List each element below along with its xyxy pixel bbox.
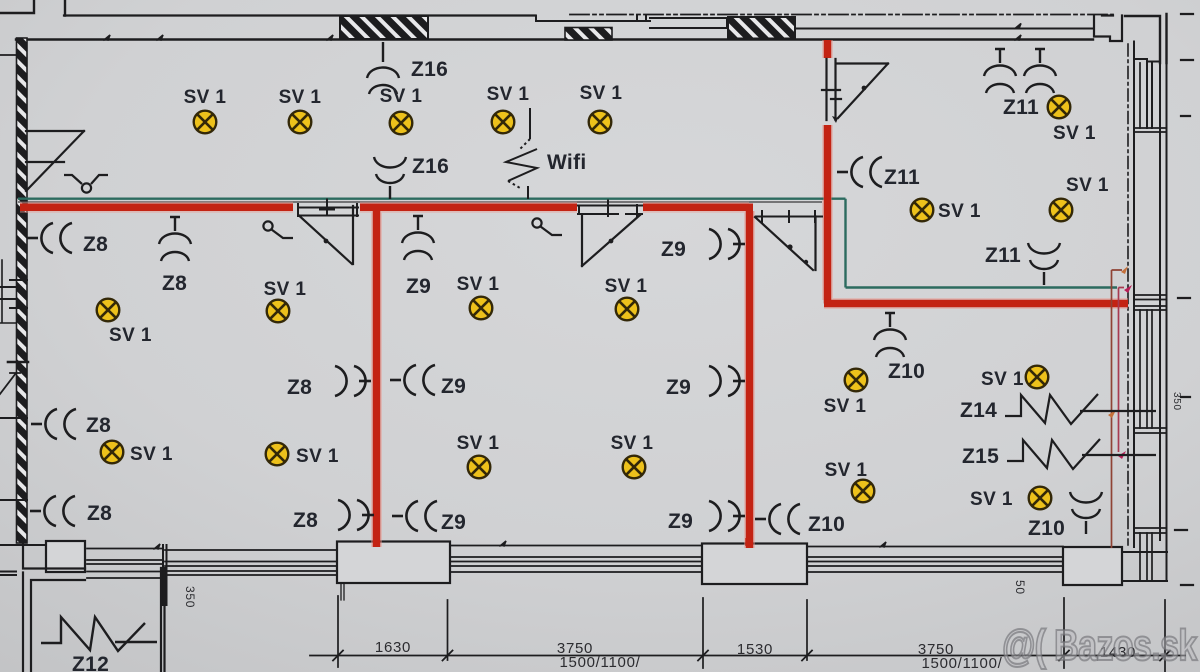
radiator Z15 xyxy=(1007,439,1100,469)
lamp SV1 room3a xyxy=(845,369,868,392)
dimension line xyxy=(310,655,1185,657)
lamp SV1 room3b xyxy=(1026,366,1049,389)
antenna Z11 a xyxy=(984,49,1016,93)
lamp SV1 c1 xyxy=(194,111,217,134)
svg-text:SV 1: SV 1 xyxy=(487,84,530,105)
svg-text:50: 50 xyxy=(1013,580,1027,595)
red stub pier3 xyxy=(745,538,753,546)
svg-text:SV 1: SV 1 xyxy=(380,86,423,107)
wall top upper line xyxy=(64,14,535,16)
svg-text:Z14: Z14 xyxy=(960,399,997,422)
antenna Z11 lower xyxy=(1028,243,1060,285)
svg-text:Z9: Z9 xyxy=(441,375,466,398)
door 4 top-left xyxy=(26,131,84,191)
door 2 lintel xyxy=(578,201,642,217)
lamp SV1 r4c xyxy=(1050,199,1073,222)
door 1 leaf xyxy=(299,206,353,264)
svg-text:Z9: Z9 xyxy=(668,510,693,533)
lamp SV1 room1d xyxy=(266,443,289,466)
tick mark xyxy=(1015,24,1021,41)
dimension slash ticks xyxy=(333,651,1170,661)
svg-text:SV 1: SV 1 xyxy=(264,279,307,300)
lamp SV1 r4a xyxy=(1048,96,1071,119)
antenna Z10 room4 xyxy=(874,313,906,357)
arrow brown z14 xyxy=(1108,410,1116,418)
switch S2 room1 xyxy=(263,221,293,238)
lamp SV1 room2c xyxy=(468,456,491,479)
door 2 leaf xyxy=(582,215,640,266)
svg-text:SV 1: SV 1 xyxy=(457,433,500,454)
arrow crimson xyxy=(1124,285,1132,293)
thin crimson wire right xyxy=(1119,288,1125,453)
bottom window band C lines xyxy=(450,546,702,573)
lamp SV1 room2d xyxy=(623,456,646,479)
door 3 leaf xyxy=(755,217,816,271)
svg-text:SV 1: SV 1 xyxy=(824,396,867,417)
lamp SV1 room1c xyxy=(101,441,124,464)
svg-text:350: 350 xyxy=(183,586,197,608)
lamp SV1 room1a xyxy=(97,299,120,322)
door 5 top-right xyxy=(822,59,888,120)
hatched wall block top 1 xyxy=(340,16,428,39)
svg-text:SV 1: SV 1 xyxy=(184,87,227,108)
bottom wall jambs xyxy=(163,545,167,605)
left exterior hatched wall xyxy=(17,38,28,543)
teal wire vertical xyxy=(844,199,846,288)
bottom right wall connector xyxy=(1122,552,1167,581)
switch S1 top-left xyxy=(64,175,108,193)
radiator Z12 xyxy=(41,617,145,651)
svg-text:Z10: Z10 xyxy=(1028,517,1065,540)
svg-text:Z9: Z9 xyxy=(666,376,691,399)
svg-text:Z15: Z15 xyxy=(962,445,999,468)
wall top step line xyxy=(536,15,650,21)
wall below pier2 xyxy=(341,583,344,600)
svg-text:SV 1: SV 1 xyxy=(605,276,648,297)
svg-text:Z8: Z8 xyxy=(293,509,318,532)
top-right wall edge xyxy=(1125,14,1167,63)
wall top beam xyxy=(650,18,727,28)
detector Z8 wall 1 xyxy=(27,223,72,253)
svg-text:SV 1: SV 1 xyxy=(457,274,500,295)
svg-text:SV 1: SV 1 xyxy=(279,87,322,108)
svg-text:SV 1: SV 1 xyxy=(1053,123,1096,144)
lamp SV1 c4 xyxy=(492,111,515,134)
radiator Z14 xyxy=(1005,394,1098,424)
detector Z9 right-facing mid xyxy=(709,366,745,396)
svg-text:Z16: Z16 xyxy=(411,58,448,81)
svg-text:SV 1: SV 1 xyxy=(296,446,339,467)
detector Z9 right-facing low xyxy=(709,501,745,531)
teal wire horizontal top xyxy=(18,197,846,199)
lamp SV1 c2 xyxy=(289,111,312,134)
tick mark xyxy=(157,35,163,40)
top-right corner block xyxy=(1094,16,1122,42)
red wire main horizontal xyxy=(20,40,1128,548)
door leaf lower-left wall xyxy=(0,373,20,394)
svg-text:Z9: Z9 xyxy=(661,238,686,261)
lamp SV1 c3 xyxy=(390,112,413,135)
right edge tick dashes xyxy=(1175,14,1193,585)
svg-text:Z11: Z11 xyxy=(985,244,1021,267)
detector Z11 wall xyxy=(837,157,882,187)
svg-text:350: 350 xyxy=(1171,392,1182,411)
lamp SV1 room3d xyxy=(1029,487,1052,510)
wire black line under red xyxy=(18,201,822,203)
svg-text:SV 1: SV 1 xyxy=(981,369,1024,390)
antenna Z10 lower-right xyxy=(1070,492,1102,534)
svg-text:1630: 1630 xyxy=(375,639,411,656)
svg-text:Z8: Z8 xyxy=(162,272,187,295)
bottom window band B lines xyxy=(165,550,337,575)
svg-text:SV 1: SV 1 xyxy=(109,325,152,346)
antenna Z8 room1 xyxy=(159,217,191,261)
svg-text:Z8: Z8 xyxy=(287,376,312,399)
bottom pier 3 xyxy=(702,544,807,585)
arrow brown xyxy=(1121,266,1128,274)
lamp SV1 room2b xyxy=(616,298,639,321)
svg-text:SV 1: SV 1 xyxy=(580,83,623,104)
antenna Z9 room2 xyxy=(402,216,434,260)
door 3 lintel xyxy=(756,211,822,222)
wall top axis dash-dot line xyxy=(570,14,1113,16)
svg-text:Z11: Z11 xyxy=(1003,96,1039,119)
red wire halo xyxy=(20,40,1128,548)
bottom pier 2 xyxy=(337,542,450,584)
lamp SV1 r4b xyxy=(911,199,934,222)
wifi flexible lead xyxy=(506,108,537,199)
tick mark xyxy=(104,35,110,40)
svg-text:1500/1100/: 1500/1100/ xyxy=(560,654,641,671)
detector Z8 wall 3 xyxy=(30,496,75,526)
hatched wall block top 2 xyxy=(565,28,612,41)
svg-text:1530: 1530 xyxy=(737,641,773,658)
svg-text:Z8: Z8 xyxy=(86,414,111,437)
svg-text:Z8: Z8 xyxy=(87,502,112,525)
lamp SV1 room1b xyxy=(267,300,290,323)
detector Z9 mid-wall upper xyxy=(390,365,435,395)
svg-text:Z9: Z9 xyxy=(406,275,431,298)
detector Z8 right-facing upper xyxy=(335,366,371,396)
lamp SV1 room3c xyxy=(852,480,875,503)
svg-text:SV 1: SV 1 xyxy=(1066,175,1109,196)
svg-text:SV 1: SV 1 xyxy=(938,201,981,222)
svg-text:SV 1: SV 1 xyxy=(970,489,1013,510)
detector Z8 right-facing lower xyxy=(338,500,374,530)
teal wire horizontal right xyxy=(846,286,1118,288)
thin brown wire right xyxy=(1112,270,1123,548)
switch S3 room2 xyxy=(532,218,562,235)
svg-text:SV 1: SV 1 xyxy=(611,433,654,454)
antenna Z16 lower xyxy=(374,157,406,199)
tick mark xyxy=(327,35,333,40)
hatched wall block top 3 xyxy=(728,17,795,39)
left wall stubs and junctions xyxy=(0,54,16,56)
bottom pier 4 xyxy=(1063,547,1122,585)
bottom window band D lines xyxy=(807,547,1063,573)
right window wall rungs xyxy=(1134,128,1166,533)
svg-text:Z11: Z11 xyxy=(884,166,920,189)
lamp SV1 c5 xyxy=(589,111,612,134)
door 1 lintel xyxy=(298,200,358,217)
detector Z10 wall xyxy=(755,504,800,534)
right wall axis dash-dot xyxy=(1127,44,1129,545)
antenna Z11 b xyxy=(1024,49,1056,93)
svg-text:Z8: Z8 xyxy=(83,233,108,256)
wall top-left stub xyxy=(0,0,65,16)
svg-text:Z9: Z9 xyxy=(441,511,466,534)
detector Z9 right-facing top xyxy=(709,229,745,259)
bottom pier 1 xyxy=(46,541,85,572)
wall top inner line right xyxy=(795,28,1093,30)
wall top bottom line xyxy=(16,38,1093,40)
svg-text:Z12: Z12 xyxy=(72,653,109,672)
svg-text:Z10: Z10 xyxy=(808,513,845,536)
svg-text:Z10: Z10 xyxy=(888,360,925,383)
right window wall verticals xyxy=(1134,42,1167,582)
bottom wall tick xyxy=(154,541,886,549)
detector Z9 mid-wall lower xyxy=(392,501,437,531)
door hinge dots xyxy=(324,86,867,265)
svg-text:Wifi: Wifi xyxy=(547,151,587,174)
svg-text:1500/1100/: 1500/1100/ xyxy=(922,655,1003,672)
lamp SV1 room2a xyxy=(470,297,493,320)
antenna Z16 top xyxy=(367,42,399,94)
detector Z8 wall 2 xyxy=(31,409,76,439)
svg-text:Z16: Z16 xyxy=(412,155,449,178)
bottom wall top line left xyxy=(0,545,85,575)
lower-left room walls xyxy=(23,543,165,672)
svg-text:@( Bazos.sk: @( Bazos.sk xyxy=(1002,621,1197,670)
svg-text:SV 1: SV 1 xyxy=(130,444,173,465)
bottom window band A lines xyxy=(87,549,163,579)
arrow crimson z15 xyxy=(1118,451,1126,459)
dimension tick lines xyxy=(338,596,1165,672)
svg-text:SV 1: SV 1 xyxy=(825,460,868,481)
